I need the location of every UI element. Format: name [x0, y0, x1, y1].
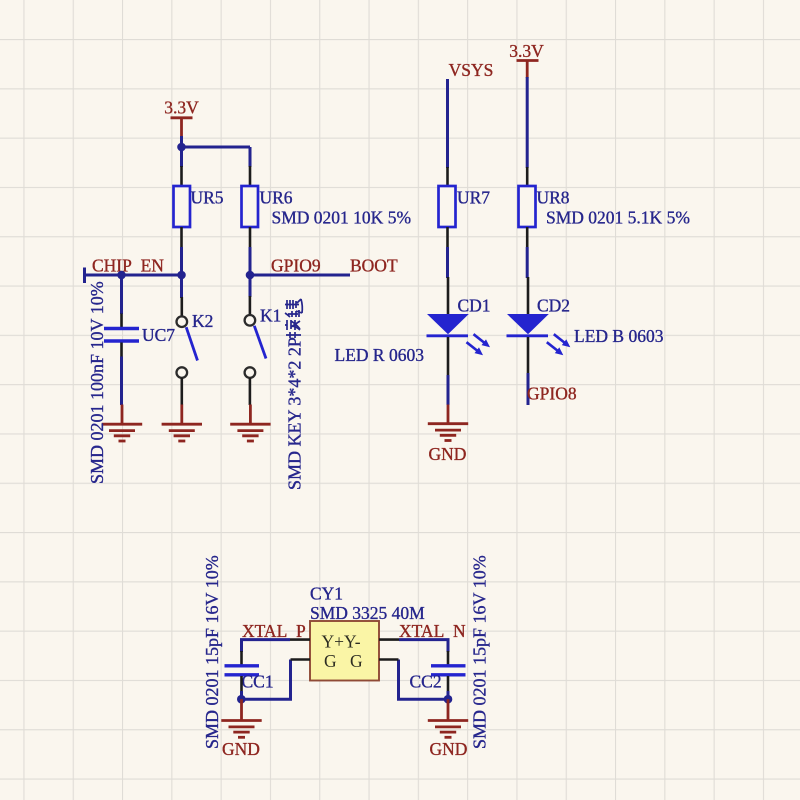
pin UR7.1 — [446, 167, 449, 186]
svg-text:SMD 0201 5.1K 5%: SMD 0201 5.1K 5% — [546, 208, 690, 228]
node — [117, 271, 126, 280]
pin CY1.Y- — [379, 638, 399, 641]
ground (below CD1) — [428, 405, 468, 465]
svg-text:LED R 0603: LED R 0603 — [335, 345, 425, 365]
capacitor UC7 — [104, 325, 175, 345]
svg-text:SMD 0201 15pF 16V 10%: SMD 0201 15pF 16V 10% — [470, 555, 490, 749]
svg-text:CD2: CD2 — [537, 296, 570, 316]
pin UR5.2 — [180, 227, 183, 247]
svg-text:GND: GND — [430, 739, 468, 759]
crystal CY1 — [310, 584, 425, 681]
pin CD1.anode — [447, 277, 450, 314]
wire — [240, 691, 243, 699]
wire — [120, 357, 123, 406]
node — [246, 271, 255, 280]
svg-text:CD1: CD1 — [458, 296, 491, 316]
wire — [180, 247, 183, 275]
capacitor CC1 — [225, 666, 274, 692]
wire — [526, 247, 529, 278]
pin CC1.1 — [240, 651, 243, 665]
svg-text:CC2: CC2 — [410, 672, 442, 692]
wire end tick — [83, 268, 86, 284]
LED CD1 — [427, 296, 491, 356]
pin K2.2 — [181, 378, 184, 405]
resistor UR6 — [242, 186, 293, 227]
node — [177, 271, 186, 280]
svg-text:LED B 0603: LED B 0603 — [574, 326, 664, 346]
svg-text:GND: GND — [222, 739, 260, 759]
svg-text:Y+Y-: Y+Y- — [322, 632, 361, 652]
ground (below CC1) — [221, 699, 261, 759]
net XTAL_P wire — [242, 640, 291, 652]
power 3.3V (left) — [164, 98, 199, 138]
svg-text:G: G — [324, 651, 337, 671]
pin CY1.G (right) — [379, 658, 399, 661]
svg-text:XTAL P: XTAL P — [242, 621, 306, 641]
net GPIO8 wire — [527, 373, 530, 405]
ground (below UC7) — [102, 405, 142, 442]
svg-text:CY1: CY1 — [310, 584, 343, 604]
resistor UR5 — [174, 186, 224, 227]
pin CY1.G (left) — [291, 658, 311, 661]
resistor UR8 — [519, 186, 570, 227]
svg-text:UR7: UR7 — [457, 188, 490, 208]
pin UR8.2 — [526, 227, 529, 247]
pin K1.1 — [249, 296, 252, 315]
svg-text:K2: K2 — [192, 311, 213, 331]
wire — [399, 660, 449, 700]
power 3.3V (right) — [509, 41, 544, 78]
power VSYS — [449, 60, 494, 80]
pin CD2.anode — [527, 277, 530, 314]
wire — [242, 660, 291, 700]
switch K1 — [245, 306, 282, 378]
wire — [182, 146, 251, 149]
resistor UR7 — [439, 186, 491, 227]
node — [444, 695, 453, 704]
value label 按键 (vertical, drawn strokes) — [285, 299, 302, 338]
svg-text:K1: K1 — [260, 306, 281, 326]
wire — [526, 77, 529, 168]
svg-text:UC7: UC7 — [142, 325, 175, 345]
svg-text:BOOT: BOOT — [350, 256, 398, 276]
wire — [180, 136, 183, 167]
svg-text:3.3V: 3.3V — [509, 41, 544, 61]
LED CD2 — [507, 296, 571, 356]
pin UR6.2 — [249, 227, 252, 247]
wire — [447, 375, 450, 405]
net CHIP_EN wire — [85, 274, 184, 277]
pin CC1.2 — [240, 676, 243, 691]
svg-text:UR6: UR6 — [260, 188, 293, 208]
node — [177, 143, 186, 152]
wire — [446, 247, 449, 278]
svg-text:CHIP EN: CHIP EN — [92, 256, 164, 276]
pin UC7.1 — [120, 314, 123, 328]
svg-text:GND: GND — [429, 444, 467, 464]
node — [237, 695, 246, 704]
pin CD2.cathode — [527, 337, 530, 373]
wire — [446, 79, 449, 168]
wire — [180, 275, 183, 298]
ground (below K2) — [162, 405, 202, 442]
svg-text:3.3V: 3.3V — [164, 98, 199, 118]
pin K1.2 — [249, 378, 252, 405]
wire — [120, 275, 123, 314]
pin CD1.cathode — [447, 337, 450, 375]
pin CC2.2 — [447, 676, 450, 691]
svg-text:VSYS: VSYS — [449, 60, 494, 80]
svg-text:CC1: CC1 — [242, 672, 274, 692]
svg-text:GPIO8: GPIO8 — [527, 384, 577, 404]
capacitor CC2 — [410, 666, 466, 692]
pin UC7.2 — [120, 343, 123, 357]
pin UR8.1 — [526, 167, 529, 186]
pin UR5.1 — [180, 166, 183, 186]
switch K2 — [177, 311, 214, 378]
svg-text:SMD 0201 15pF 16V 10%: SMD 0201 15pF 16V 10% — [202, 555, 222, 749]
wire — [447, 691, 450, 699]
net GPIO9 wire — [250, 274, 350, 277]
wire — [249, 147, 252, 167]
svg-text:SMD 0201 100nF 10V 10%: SMD 0201 100nF 10V 10% — [87, 281, 107, 484]
ground (below CC2) — [428, 699, 468, 759]
pin CC2.1 — [447, 651, 450, 665]
svg-text:XTAL N: XTAL N — [399, 621, 466, 641]
ground (below K1) — [230, 405, 270, 442]
svg-text:GPIO9: GPIO9 — [271, 256, 321, 276]
svg-text:G: G — [350, 651, 363, 671]
wire — [249, 275, 252, 297]
pin CY1.Y+ — [290, 638, 310, 641]
pin UR7.2 — [446, 227, 449, 247]
svg-text:SMD 0201 10K 5%: SMD 0201 10K 5% — [272, 208, 412, 228]
svg-text:SMD 3325 40M: SMD 3325 40M — [310, 603, 425, 623]
svg-text:SMD KEY 3*4*2 2P: SMD KEY 3*4*2 2P — [285, 337, 305, 490]
net XTAL_N wire — [399, 640, 448, 652]
svg-text:UR5: UR5 — [191, 188, 224, 208]
pin K2.1 — [181, 297, 184, 316]
svg-text:UR8: UR8 — [537, 188, 570, 208]
wire — [249, 247, 252, 275]
pin UR6.1 — [249, 166, 252, 186]
